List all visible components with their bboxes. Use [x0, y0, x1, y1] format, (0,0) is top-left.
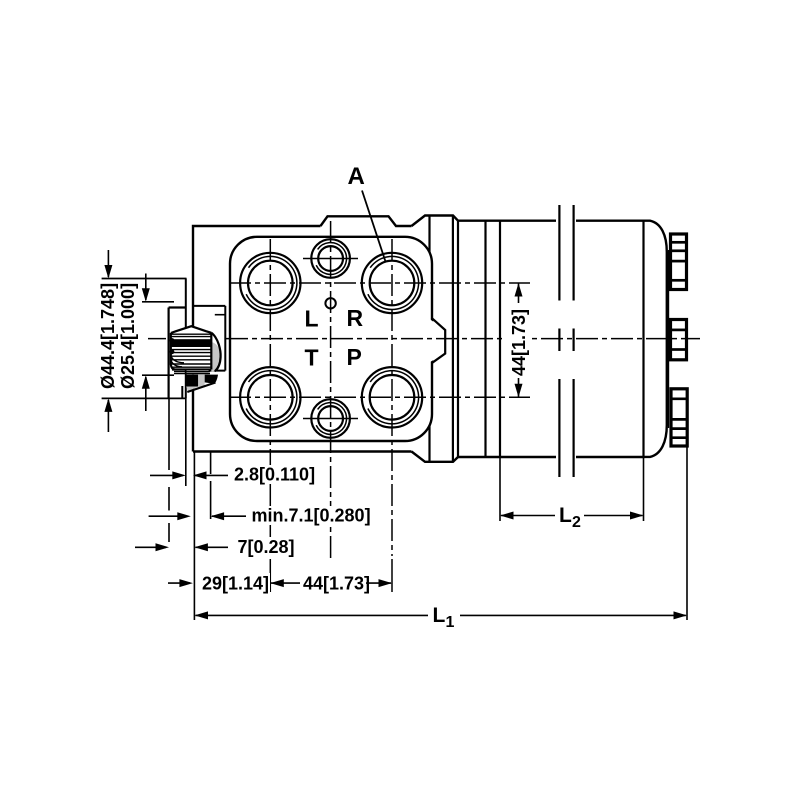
dim 2.8[0.110] — [150, 474, 183, 476]
extension line min7.1 — [210, 452, 212, 474]
cylinder top edge — [458, 219, 556, 221]
svg-text:29[1.14]: 29[1.14] — [202, 574, 269, 594]
break lines — [558, 205, 560, 301]
cylinder bottom edge — [458, 456, 556, 458]
side tab on plate right edge — [430, 319, 446, 362]
small port bottom — [311, 399, 350, 438]
dim 29[1.14] — [168, 582, 190, 584]
neck outline — [168, 308, 170, 399]
splined shaft end — [170, 326, 221, 371]
shaft boss face — [185, 279, 187, 399]
cylinder face line — [457, 221, 459, 457]
svg-text:L: L — [559, 504, 572, 527]
top port row centerline — [229, 282, 530, 284]
svg-text:44[1.73]: 44[1.73] — [303, 574, 370, 594]
dim 7[0.28] — [135, 546, 166, 548]
dim 44[1.73] horizontal — [270, 579, 284, 587]
mounting flange edge lines — [428, 216, 430, 462]
extension line neck edge — [168, 399, 170, 470]
main horizontal centerline — [148, 338, 166, 340]
port R (A) — [362, 253, 422, 313]
extension line boss face — [185, 399, 187, 487]
flange bottom — [412, 452, 459, 462]
svg-text:2.8[0.110]: 2.8[0.110] — [234, 465, 315, 485]
dim L2 — [500, 512, 514, 520]
svg-text:L: L — [305, 305, 319, 331]
bolt B3 (bottom) — [671, 389, 687, 446]
svg-text:Ø25.4[1.000]: Ø25.4[1.000] — [118, 283, 138, 389]
svg-text:min.7.1[0.280]: min.7.1[0.280] — [252, 506, 371, 526]
svg-text:T: T — [305, 345, 319, 371]
label A leader — [362, 191, 386, 263]
extension line housing face — [193, 452, 195, 621]
svg-text:2: 2 — [572, 514, 581, 531]
svg-text:R: R — [347, 305, 364, 331]
port T — [240, 367, 300, 427]
boss bottom edge / dim tick — [102, 397, 187, 399]
dim 44[1.73] vertical — [515, 283, 523, 297]
left port column centerline — [269, 239, 271, 556]
shaft seal assembly — [174, 370, 218, 398]
port L — [240, 253, 300, 313]
right port column centerline — [391, 239, 393, 556]
dim L1 — [195, 611, 209, 619]
dim Ø44.4 arrows — [107, 250, 109, 277]
extension line L2 right — [643, 457, 645, 521]
svg-text:L: L — [433, 604, 446, 627]
bolt B1 (top) — [671, 234, 687, 290]
svg-text:A: A — [348, 163, 365, 190]
svg-text:7[0.28]: 7[0.28] — [238, 537, 295, 557]
cylinder ring lines — [484, 221, 486, 457]
housing bottom edge — [193, 450, 412, 452]
dim Ø25.4 arrows — [145, 274, 147, 301]
housing outline — [193, 226, 321, 452]
dim min.7.1[0.280] — [149, 515, 178, 517]
bottom port row centerline — [229, 396, 530, 398]
cap seam line behind bolts — [668, 250, 670, 428]
shaft recess outline — [194, 305, 225, 307]
svg-text:44[1.73]: 44[1.73] — [509, 309, 529, 376]
pilot hole — [325, 298, 335, 308]
end cap outline — [644, 221, 667, 457]
valve plate (rounded square) — [230, 237, 432, 441]
small port bottom centerline — [303, 418, 358, 420]
housing body silhouette — [193, 216, 667, 462]
small port top — [311, 239, 350, 278]
port P — [362, 367, 422, 427]
boss top edge / dim tick — [102, 278, 187, 280]
svg-text:Ø44.4[1.748]: Ø44.4[1.748] — [98, 283, 118, 389]
bolt B2 (middle) — [671, 320, 687, 360]
top tab — [321, 216, 412, 226]
shaft diameter ticks — [142, 301, 174, 303]
extension line L1 right — [686, 446, 688, 620]
svg-text:1: 1 — [446, 614, 455, 631]
flange top — [412, 216, 459, 227]
svg-text:P: P — [347, 344, 362, 370]
small port top centerline — [303, 258, 358, 260]
extension line L2 left — [499, 457, 501, 521]
center column centerline — [330, 221, 332, 558]
